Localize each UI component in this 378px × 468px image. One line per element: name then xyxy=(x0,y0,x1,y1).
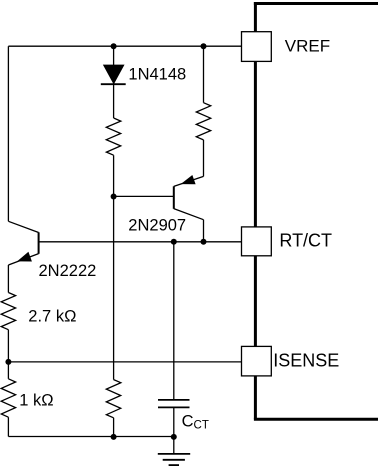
svg-text:1 kΩ: 1 kΩ xyxy=(19,392,53,410)
wire capacitor top lead xyxy=(173,242,175,399)
transistor Q2 2N2222 (NPN) xyxy=(8,221,38,265)
transistor Q1 2N2907 (PNP) xyxy=(174,176,204,220)
node Q1 base junction xyxy=(111,194,117,200)
ground symbol xyxy=(158,454,190,465)
wire R2 top to VREF rail xyxy=(203,46,205,102)
svg-text:2N2222: 2N2222 xyxy=(39,262,97,280)
wire ISENSE line xyxy=(8,361,242,363)
resistor R3 (middle, bottom) xyxy=(106,380,121,418)
resistor R5 1k xyxy=(1,379,15,417)
wire middle rail (R1 bottom down to R3 top, crossing RT/CT and ISENSE lines) xyxy=(113,155,115,379)
wire Q2 emitter to resistor R4 xyxy=(7,265,9,293)
wire top rail VREF net xyxy=(8,45,242,47)
wire diode cathode to resistor R1 xyxy=(113,83,115,118)
node VREF/diode junction xyxy=(111,43,117,49)
svg-text:VREF: VREF xyxy=(285,36,330,55)
pin box VREF xyxy=(242,32,272,62)
wire capacitor bottom lead xyxy=(173,407,175,437)
wire diode anode lead xyxy=(113,46,115,66)
wire Q1 emitter lead up to resistor R2 xyxy=(203,140,205,177)
resistor R1 (below diode) xyxy=(106,118,121,155)
wire left rail (collector of Q2 to top rail) xyxy=(7,46,9,221)
node VREF/resistor junction xyxy=(201,43,207,49)
wire R4 bottom to ISENSE line xyxy=(7,330,9,362)
svg-text:ISENSE: ISENSE xyxy=(273,350,339,370)
IC bottom edge thick horizontal line xyxy=(254,418,378,421)
wire ISENSE to R5 top xyxy=(7,362,9,379)
IC top edge thick horizontal line xyxy=(254,2,378,5)
wire R5 bottom to ground line xyxy=(7,417,9,436)
wire Q1 base line xyxy=(114,195,174,197)
svg-text:2.7 kΩ: 2.7 kΩ xyxy=(28,308,76,326)
svg-text:CCT: CCT xyxy=(182,412,209,431)
wire R3 bottom lead xyxy=(113,418,115,437)
node R3 bottom junction xyxy=(111,434,117,440)
node Q1 collector junction xyxy=(201,239,207,245)
wire bottom ground line xyxy=(8,436,173,438)
svg-text:1N4148: 1N4148 xyxy=(128,66,186,84)
resistor R2 (VREF to Q1 emitter) xyxy=(196,103,210,140)
node ISENSE/R5 junction xyxy=(5,359,11,365)
capacitor C_CT xyxy=(158,400,190,408)
svg-text:2N2907: 2N2907 xyxy=(128,216,186,234)
IC edge thick vertical line xyxy=(254,2,257,419)
diode D1 1N4148 xyxy=(101,65,126,84)
wire ground stem xyxy=(173,437,175,454)
wire RT/CT line (Q2 base to RT/CT pin) xyxy=(39,241,242,243)
node capacitor top junction xyxy=(171,239,177,245)
node ground junction xyxy=(171,434,177,440)
pin box ISENSE xyxy=(242,346,272,376)
pin box RT/CT xyxy=(242,227,272,256)
svg-text:RT/CT: RT/CT xyxy=(279,230,332,250)
resistor R4 2.7k xyxy=(1,293,15,330)
wire Q1 collector lead down to RT/CT line xyxy=(203,220,205,242)
